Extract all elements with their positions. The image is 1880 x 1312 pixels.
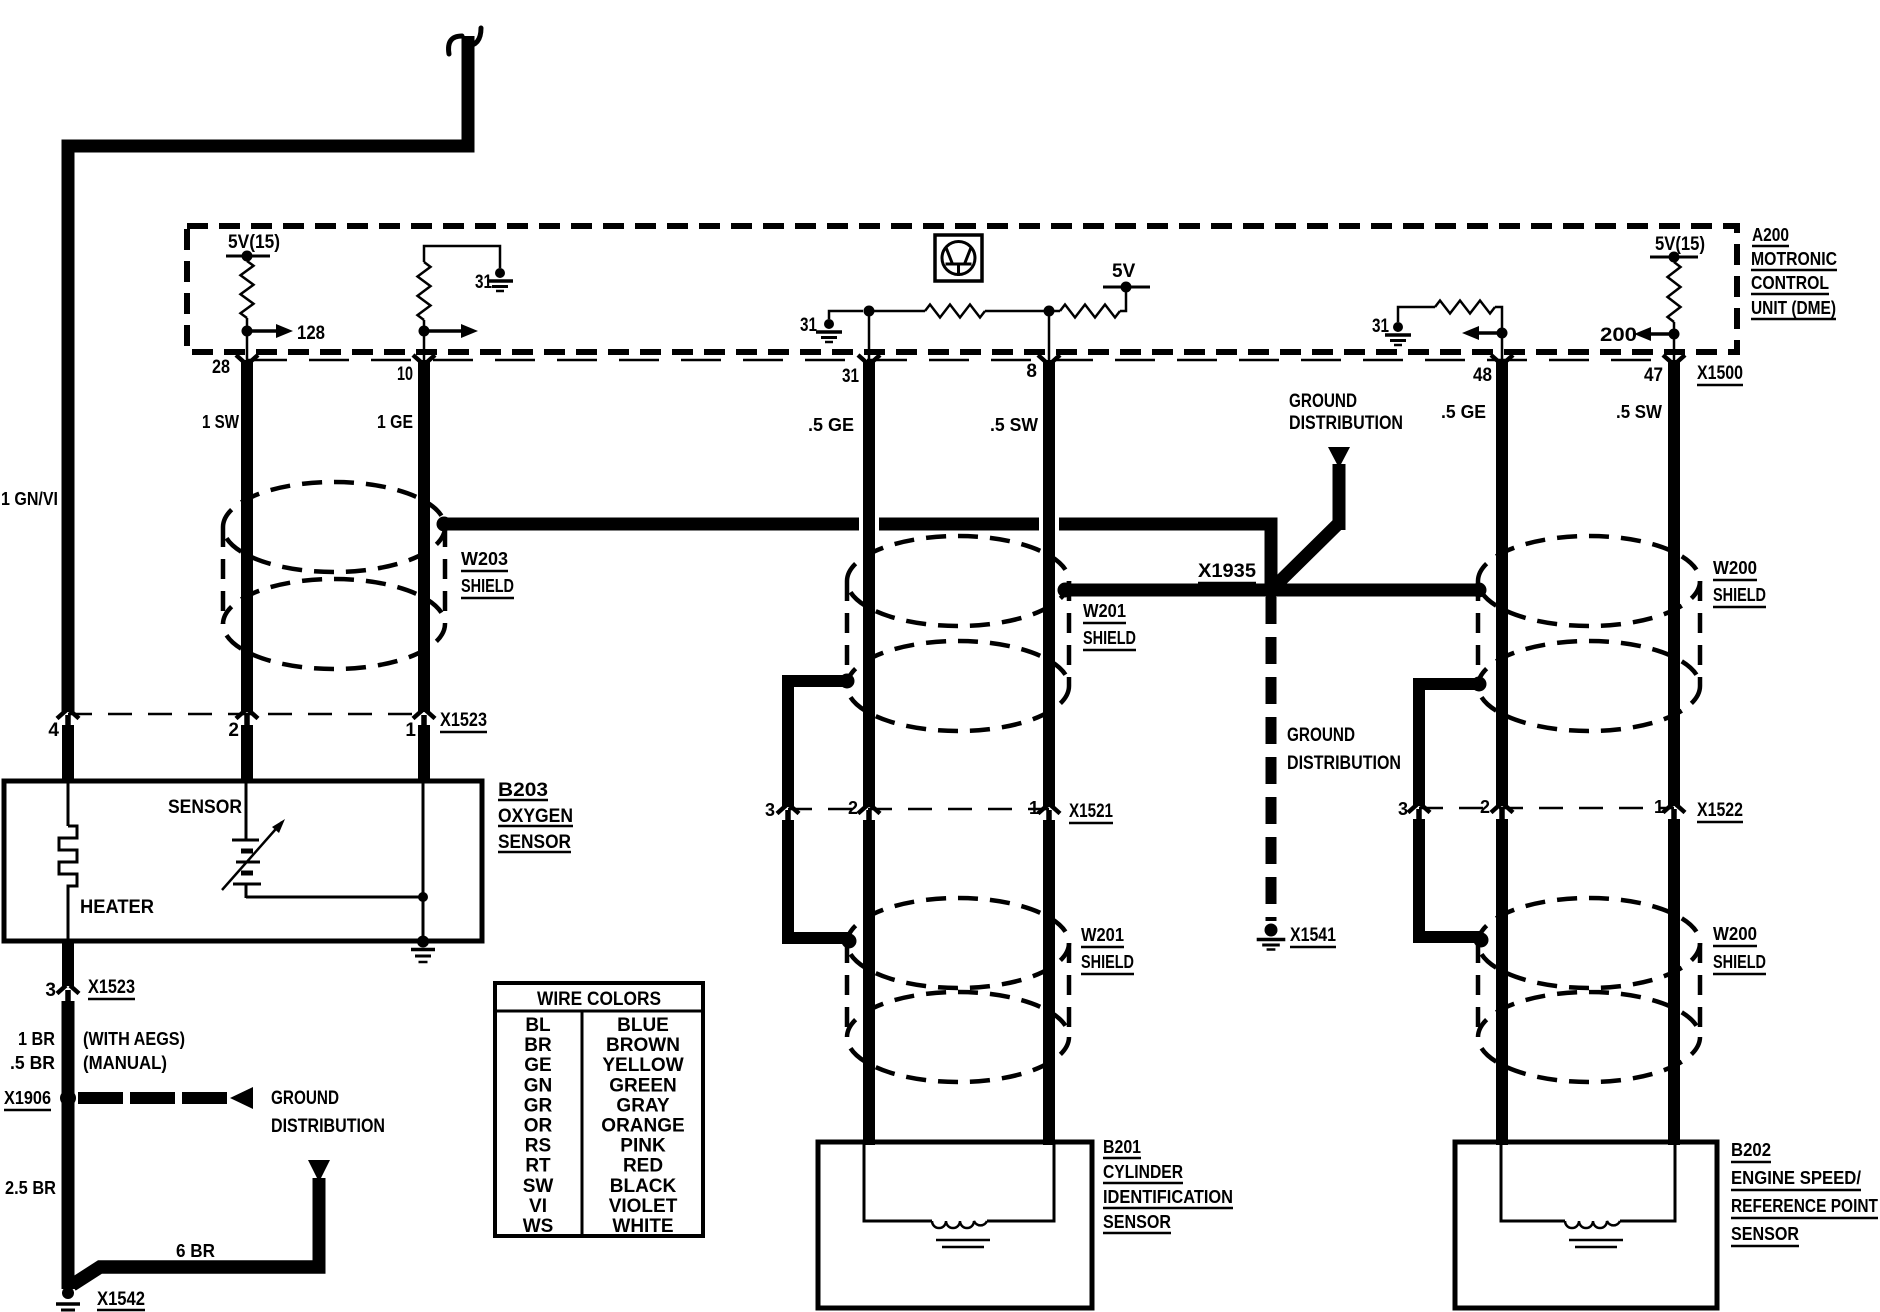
wire resistor to pin 47 junction with left arrow 200 [1673,322,1676,362]
svg-text:.5 BR: .5 BR [10,1053,55,1073]
svg-text:5V: 5V [1112,261,1136,282]
wire X1523 pin 4 to oxygen sensor heater [62,725,74,783]
svg-text:HEATER: HEATER [80,897,154,918]
wire .5 GE cylinder id sensor (pin 31 to X1521 pin 2) [863,360,875,807]
svg-text:YELLOW: YELLOW [602,1055,683,1076]
wire 1 GN/VI heater supply, left vertical main run [62,140,75,713]
svg-text:128: 128 [297,323,325,344]
svg-text:DISTRIBUTION: DISTRIBUTION [271,1116,385,1137]
resistor internal DME pin 48 [1435,301,1495,314]
wire X1523 pin 1 to sensor common [418,725,430,783]
wire pin 8 drop [1048,311,1051,362]
wire 1 GE oxygen sensor signal (pin 10 to X1523 pin 1) [418,360,430,712]
node W201 lower shield tap [842,934,857,949]
svg-text:W201: W201 [1083,601,1126,621]
wire W200 shield drain to X1522 pin 3 [1419,684,1479,806]
svg-text:48: 48 [1473,365,1492,386]
pin 10 socket at X1500 [413,355,435,363]
svg-text:5V(15): 5V(15) [1655,234,1705,255]
svg-text:DISTRIBUTION: DISTRIBUTION [1287,753,1401,774]
sensor variable-source element in B203 [245,781,248,840]
svg-text:CYLINDER: CYLINDER [1103,1162,1183,1182]
svg-text:1 SW: 1 SW [202,412,239,432]
svg-text:X1500: X1500 [1697,363,1743,384]
svg-text:VIOLET: VIOLET [609,1196,678,1217]
svg-text:SHIELD: SHIELD [1713,585,1766,605]
svg-text:3: 3 [765,800,775,820]
svg-text:X1906: X1906 [4,1088,51,1108]
wire W201 shield drain to X1521 pin 3 [788,681,847,807]
connector X1523 dashed line [68,713,424,716]
node W200 lower shield tap [1474,933,1489,948]
svg-text:BLACK: BLACK [610,1176,677,1197]
inductor pickup coil in B201 [932,1221,987,1228]
connector X1523 pin 2 socket [236,711,258,719]
node X1906 splice [60,1090,76,1106]
connector X1522 pin 1 socket [1663,805,1685,813]
ground X1541 [1265,924,1278,937]
sensor B201 cylinder identification sensor box [818,1142,1092,1308]
connector X1521 pin 1 socket [1038,806,1060,814]
svg-text:31: 31 [800,315,817,336]
svg-text:SENSOR: SENSOR [1103,1212,1171,1232]
svg-text:X1522: X1522 [1697,800,1743,821]
svg-text:B202: B202 [1731,1140,1771,1160]
wire battery feed horizontal run to left margin [62,140,475,153]
svg-text:X1523: X1523 [440,710,487,731]
connector X1523 pin 4 socket [57,711,79,719]
svg-text:GR: GR [524,1095,553,1116]
ground 31 internal DME (pin 48 network) [1393,322,1403,332]
wire W201 shield tap to X1935 [1065,584,1271,597]
svg-text:DISTRIBUTION: DISTRIBUTION [1289,413,1403,434]
table WIRE COLORS legend [495,983,703,1236]
ground distribution feed arrow lower [308,1160,330,1182]
svg-text:GRAY: GRAY [616,1095,669,1116]
resistor divider left (pins 31-8) [869,310,925,313]
ground sensor case ground below B203 [417,936,429,948]
wire pin 31 drop [868,311,871,362]
wire X1523 pin 2 to sensor element [241,725,253,783]
svg-text:(MANUAL): (MANUAL) [83,1053,167,1073]
control unit A200 Motronic dashed outline box [187,226,1737,352]
svg-text:1 GE: 1 GE [377,412,413,432]
shield W200 lower near B202 [1478,898,1700,988]
wire battery feed vertical drop from top [462,36,475,153]
svg-text:.5 SW: .5 SW [990,415,1038,435]
shield W201 upper around cylinder id sensor wires [847,536,1069,626]
node W200 shield drain tap [1472,677,1487,692]
svg-text:BLUE: BLUE [617,1015,669,1036]
svg-text:SENSOR: SENSOR [1731,1224,1799,1244]
resistor divider right (pin 8 to 5V) [1060,305,1120,318]
svg-text:200: 200 [1600,325,1637,346]
svg-text:W200: W200 [1713,924,1757,944]
svg-text:X1935: X1935 [1198,561,1256,582]
svg-text:ORANGE: ORANGE [601,1116,684,1137]
svg-text:RED: RED [623,1156,663,1177]
wire X1522 pin 1 to B202 [1668,819,1680,1145]
wire resistor to pin 28, junction and internal signal arrow 128 [246,318,249,362]
svg-text:2: 2 [848,798,858,818]
wire X1521 pin 1 to B201 [1043,820,1055,1145]
svg-text:W201: W201 [1081,925,1124,945]
svg-text:3: 3 [45,980,56,1001]
resistor internal DME on pin 10 line [418,262,431,320]
sensor B203 oxygen sensor box [4,781,482,941]
svg-text:GREEN: GREEN [609,1075,677,1096]
svg-text:BR: BR [524,1035,552,1056]
svg-text:2: 2 [1480,797,1490,817]
svg-text:31: 31 [475,272,492,293]
wire dashed ground distribution run X1935 to X1541 [1266,597,1277,921]
svg-text:PINK: PINK [620,1136,666,1157]
svg-text:X1541: X1541 [1290,925,1336,946]
svg-text:5V(15): 5V(15) [228,232,280,253]
connector X1500 thin dashed line across DME pins [247,359,1674,362]
svg-text:CONTROL: CONTROL [1751,273,1829,293]
svg-text:B203: B203 [498,780,548,801]
wire X1521 pin 3 to W201 lower shield [788,820,849,938]
connector X1521 pin 3 socket [777,806,799,814]
svg-text:RS: RS [525,1136,551,1157]
wire .5 GE engine speed sensor (pin 48 to X1522 pin 2) [1496,360,1508,806]
svg-text:1: 1 [1029,798,1039,818]
wire .5 SW engine speed sensor (pin 47 to X1522 pin 1) [1668,360,1680,806]
svg-text:1 GN/VI: 1 GN/VI [1,489,58,509]
wire X1935 to W200 shield tap [1271,584,1479,597]
svg-text:GROUND: GROUND [1287,725,1355,746]
svg-text:SENSOR: SENSOR [498,832,571,853]
svg-text:2: 2 [228,720,239,741]
svg-text:B201: B201 [1103,1137,1141,1157]
svg-text:SHIELD: SHIELD [1083,628,1136,648]
wire heater ground B203 to X1523 pin 3 [62,941,74,986]
svg-text:.5 SW: .5 SW [1616,402,1662,422]
connector X1522 dashed line [1419,807,1674,810]
svg-text:2.5 BR: 2.5 BR [5,1178,56,1198]
svg-text:OR: OR [524,1116,553,1137]
svg-text:X1523: X1523 [88,977,135,998]
power 5V tap center [1103,286,1150,289]
ground 31 internal DME (center network) [824,319,834,329]
svg-text:BROWN: BROWN [606,1035,680,1056]
svg-text:SENSOR: SENSOR [168,797,242,818]
wire break symbol (continuation curl) at top of battery feed wire [449,28,481,54]
node junction pin 8 net [1044,306,1055,317]
connector X1522 pin 3 socket [1408,805,1430,813]
node junction pin 31 net [864,306,875,317]
connector X1523 pin 1 socket [413,711,435,719]
svg-text:WS: WS [523,1216,554,1237]
wire shield ground bus from W203 to X1935 (crossovers at sensor wires) [444,518,859,531]
node shield W203 tap junction [437,517,452,532]
svg-text:(WITH AEGS): (WITH AEGS) [83,1029,185,1049]
wire 1 SW oxygen sensor signal (pin 28 to X1523 pin 2) [241,360,253,712]
wire X1522 pin 2 to B202 [1496,819,1508,1145]
svg-text:1 BR: 1 BR [18,1029,55,1049]
resistor pull-up inside DME on pin 28 line [241,261,254,318]
svg-text:10: 10 [397,364,413,385]
svg-text:W200: W200 [1713,558,1757,578]
pin 31 socket at X1500 [858,355,880,363]
svg-text:SHIELD: SHIELD [1081,952,1134,972]
node X1935 shield ground junction [1263,582,1280,599]
svg-text:.5 GE: .5 GE [808,415,854,435]
wire .5 SW cylinder id sensor (pin 8 to X1521 pin 1) [1043,360,1055,807]
node junction sensor common [418,892,428,902]
wire dashed to ground distribution at X1906 [78,1092,228,1104]
shield W200 upper around engine speed sensor wires [1478,536,1700,626]
shield W201 lower near B201 [847,898,1069,988]
svg-text:47: 47 [1644,365,1663,386]
pin 48 socket at X1500 [1491,355,1513,363]
svg-text:SHIELD: SHIELD [1713,952,1766,972]
shield W203 around oxygen sensor wires [223,482,445,572]
pin 47 socket at X1500 [1663,355,1685,363]
svg-text:28: 28 [212,357,230,378]
heater element (square-wave) in B203 [67,781,70,826]
connector X1522 pin 2 socket [1491,805,1513,813]
ground distribution feed arrow into X1935 [1328,447,1350,468]
svg-text:REFERENCE POINT: REFERENCE POINT [1731,1196,1878,1216]
inductor pickup coil in B202 [1565,1221,1620,1228]
svg-text:GE: GE [524,1055,551,1076]
wire resistor to pin 48 junction with left arrow [1495,307,1502,362]
wire 1 BR / .5 BR heater ground run [62,1001,75,1289]
svg-text:VI: VI [529,1196,547,1217]
svg-text:X1521: X1521 [1069,801,1113,822]
svg-text:1: 1 [405,720,416,741]
svg-text:SW: SW [523,1176,554,1197]
sensor B202 engine speed / reference point sensor box [1455,1142,1717,1308]
node W201 shield drain tap [840,674,855,689]
svg-text:31: 31 [842,366,859,387]
svg-text:3: 3 [1398,799,1408,819]
svg-text:IDENTIFICATION: IDENTIFICATION [1103,1187,1233,1207]
connector X1521 dashed line [788,808,1049,811]
wire X1521 pin 2 to B201 [863,820,875,1145]
wire common vertical in B203 [422,781,425,941]
svg-text:8: 8 [1026,361,1037,382]
svg-text:A200: A200 [1752,225,1789,245]
svg-text:X1542: X1542 [97,1289,145,1310]
ground 31 internal DME (pin 10 network) [495,268,505,278]
wire sensor element to common node [246,896,423,899]
wire resistor top to internal ground 31 (pin 10 network) [424,246,500,268]
svg-text:GROUND: GROUND [1289,391,1357,412]
connector X1523 pin 3 socket [57,986,79,994]
svg-text:UNIT (DME): UNIT (DME) [1751,298,1836,318]
svg-text:GROUND: GROUND [271,1088,339,1109]
connector X1521 pin 2 socket [858,806,880,814]
pin 28 socket at X1500 [236,355,258,363]
svg-text:OXYGEN: OXYGEN [498,806,573,827]
svg-text:MOTRONIC: MOTRONIC [1751,249,1837,269]
svg-text:SHIELD: SHIELD [461,576,514,596]
svg-text:WIRE COLORS: WIRE COLORS [537,989,661,1010]
ground X1542 [62,1287,74,1299]
pin 8 socket at X1500 [1038,355,1060,363]
svg-text:ENGINE SPEED/: ENGINE SPEED/ [1731,1168,1861,1188]
resistor pull-up pin 47 [1668,262,1681,322]
wire X1522 pin 3 to W200 lower shield [1419,819,1481,937]
svg-text:GN: GN [524,1075,553,1096]
node W200 shield tap dot [1472,583,1487,598]
wire 6 BR ground jumper [72,1267,326,1285]
wire resistor to pin 10 with junction and arrow [423,320,426,362]
svg-text:4: 4 [48,720,59,741]
svg-text:.5 GE: .5 GE [1441,402,1486,422]
svg-text:BL: BL [525,1015,551,1036]
op-amp / IC comparator symbol inside DME [935,235,982,281]
svg-text:31: 31 [1372,316,1389,337]
svg-text:WHITE: WHITE [612,1216,673,1237]
svg-text:W203: W203 [461,549,508,569]
svg-text:6 BR: 6 BR [176,1241,215,1261]
svg-text:1: 1 [1654,797,1664,817]
node W201 shield tap dot [1058,583,1073,598]
svg-text:RT: RT [525,1156,551,1177]
